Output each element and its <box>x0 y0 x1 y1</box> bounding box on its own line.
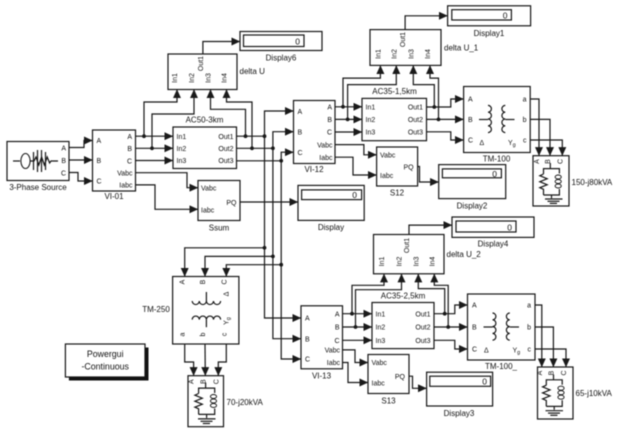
svg-text:Display1: Display1 <box>474 29 505 38</box>
svg-text:Display: Display <box>318 223 344 232</box>
svg-text:In4: In4 <box>425 49 432 59</box>
svg-text:B: B <box>548 370 555 375</box>
svg-text:B: B <box>472 325 477 332</box>
wire VI-12 A to AC35-1,5km In1 <box>335 106 362 108</box>
svg-text:Out2: Out2 <box>408 117 423 124</box>
wire delta U_1 Out1 to Display1 <box>405 16 448 30</box>
svg-text:0: 0 <box>492 169 497 179</box>
wire TM-100 c to load C <box>530 140 562 156</box>
display Display1 <box>448 6 531 38</box>
wire TM-100 b to load B <box>530 119 550 155</box>
svg-text:B: B <box>545 159 552 164</box>
svg-text:Display3: Display3 <box>444 409 475 418</box>
svg-text:A: A <box>127 134 132 141</box>
svg-text:A: A <box>305 316 310 323</box>
svg-text:B: B <box>335 325 340 332</box>
svg-text:A: A <box>61 146 66 153</box>
wire AC35-1,5km Out2 to TM-100 B <box>427 118 464 120</box>
svg-text:Iabc: Iabc <box>380 173 394 180</box>
svg-text:B: B <box>298 129 303 136</box>
transformer TM-100 <box>464 87 531 164</box>
svg-text:C: C <box>557 159 564 164</box>
svg-text:AC35-2,5km: AC35-2,5km <box>381 292 426 301</box>
node feeding delta U_2 In3 <box>443 312 447 316</box>
wire TM-250 b to load B <box>204 344 206 376</box>
transformer TM-250 <box>142 277 239 345</box>
svg-text:A: A <box>335 311 340 318</box>
node TM-250 A tap <box>263 246 267 250</box>
svg-text:B: B <box>200 379 207 384</box>
svg-text:b: b <box>200 332 207 336</box>
svg-text:In2: In2 <box>366 117 376 124</box>
svg-text:TM-100: TM-100 <box>483 155 511 164</box>
svg-text:Vabc: Vabc <box>117 171 133 178</box>
display Display2 <box>439 165 506 211</box>
wire tap to TM-250 C <box>226 265 281 277</box>
display Display3 <box>427 372 493 418</box>
wire TM-100_ c to load C <box>535 349 566 367</box>
svg-text:In1: In1 <box>177 134 187 141</box>
measurement block VI-13 <box>301 306 343 381</box>
svg-text:Display6: Display6 <box>266 54 297 63</box>
svg-text:Iabc: Iabc <box>372 381 386 388</box>
svg-text:Display2: Display2 <box>457 202 488 211</box>
wire tap to TM-250 B <box>205 256 273 276</box>
svg-text:Iabc: Iabc <box>119 183 133 190</box>
wire to delta U_1 In2 <box>348 65 397 119</box>
svg-text:Out1: Out1 <box>404 238 411 253</box>
svg-text:A: A <box>298 109 303 116</box>
svg-text:In2: In2 <box>391 49 398 59</box>
wire to delta U In1 <box>144 90 177 137</box>
svg-text:A: A <box>468 97 473 104</box>
display Display4 <box>452 217 534 249</box>
svg-text:TM-100_: TM-100_ <box>485 362 518 371</box>
svg-text:Out2: Out2 <box>415 325 430 332</box>
svg-text:A: A <box>537 370 544 375</box>
svg-text:VI-01: VI-01 <box>104 192 124 201</box>
3-phase source V1 <box>7 142 69 193</box>
node Out3 corridor junction <box>279 159 283 163</box>
wire source C to VI-01 C <box>69 173 93 182</box>
wire VI-12 Iabc to S12 <box>335 157 377 175</box>
wire to delta U_2 In3 <box>418 274 444 314</box>
svg-text:Out1: Out1 <box>408 105 423 112</box>
svg-text:0: 0 <box>482 377 487 387</box>
svg-text:In1: In1 <box>172 73 179 83</box>
wire to delta U_1 In4 <box>430 65 439 119</box>
svg-text:delta U_2: delta U_2 <box>447 250 482 259</box>
wire VI-13 Iabc to S13 <box>343 363 369 383</box>
svg-text:B: B <box>305 336 310 343</box>
svg-text:Out3: Out3 <box>218 158 233 165</box>
svg-text:AC35-1,5km: AC35-1,5km <box>372 87 417 96</box>
wire VI-01 Iabc to Ssum <box>136 185 199 209</box>
svg-text:Iabc: Iabc <box>201 207 215 214</box>
display Display6 <box>240 32 322 63</box>
wire AC50 Out3 to corridor <box>237 160 282 162</box>
svg-text:Out1: Out1 <box>218 134 233 141</box>
wire to delta U_1 In1 <box>343 65 380 106</box>
powergui block <box>65 344 148 381</box>
svg-text:C: C <box>221 279 228 284</box>
wire VI-12 C to AC35-1,5km In3 <box>335 131 362 133</box>
svg-text:Ssum: Ssum <box>209 224 230 233</box>
node Out2 / delta U In4 <box>250 146 254 150</box>
svg-text:0: 0 <box>507 222 512 232</box>
svg-text:AC50-3km: AC50-3km <box>186 116 224 125</box>
svg-text:A: A <box>472 303 477 310</box>
wire TM-250 c to load C <box>218 344 226 376</box>
svg-text:S12: S12 <box>390 189 405 198</box>
svg-text:S13: S13 <box>381 397 396 406</box>
svg-text:c: c <box>523 138 527 145</box>
svg-text:Out2: Out2 <box>218 146 233 153</box>
wire S12 PQ to Display2 <box>418 167 439 183</box>
wire AC50 Out2 to corridor <box>237 147 273 149</box>
subtractor block delta U <box>168 54 265 90</box>
svg-text:0: 0 <box>295 37 300 47</box>
svg-text:C: C <box>327 130 332 137</box>
svg-text:a: a <box>180 332 187 336</box>
svg-text:Vabc: Vabc <box>201 186 217 193</box>
subtractor block delta U_1 <box>370 30 479 66</box>
wire to delta U_1 In3 <box>413 65 434 107</box>
svg-text:B: B <box>127 146 132 153</box>
svg-text:C: C <box>97 179 102 186</box>
node on phase A feeding delta U In1 <box>142 134 146 138</box>
svg-text:C: C <box>61 171 66 178</box>
wire TM-100_ a to load A <box>535 305 542 367</box>
wire VI-13 C to AC35-2,5km In3 <box>343 339 373 341</box>
svg-text:delta U: delta U <box>240 67 266 76</box>
power measurement S13 <box>368 355 409 406</box>
svg-text:TM-250: TM-250 <box>142 305 170 314</box>
wire TM-100 a to load A <box>530 99 539 156</box>
load 150-j80kVA <box>533 156 613 206</box>
svg-text:C: C <box>334 338 339 345</box>
svg-text:c: c <box>528 347 532 354</box>
load 65-j10kVA <box>537 367 613 419</box>
svg-text:In2: In2 <box>376 325 386 332</box>
svg-text:b: b <box>523 117 527 124</box>
wire source B to VI-01 B <box>69 159 93 161</box>
svg-text:Vabc: Vabc <box>325 347 341 354</box>
svg-text:B: B <box>200 279 207 284</box>
svg-text:B: B <box>97 158 102 165</box>
svg-text:Iabc: Iabc <box>327 360 341 367</box>
wire VI-12 B to AC35-1,5km In2 <box>335 118 362 120</box>
wire S13 PQ to Display3 <box>409 376 427 388</box>
wire AC35-1,5km Out1 to TM-100 A <box>427 99 464 107</box>
svg-text:PQ: PQ <box>395 374 406 381</box>
svg-text:C: C <box>468 138 473 145</box>
wire delta U Out1 to Display6 <box>203 42 240 55</box>
svg-text:Δ: Δ <box>480 140 485 147</box>
svg-text:In1: In1 <box>375 49 382 59</box>
svg-text:C: C <box>472 347 477 354</box>
wire corridor C up to VI-12 C <box>281 152 293 161</box>
svg-text:0: 0 <box>352 190 357 200</box>
svg-text:VI-12: VI-12 <box>304 165 324 174</box>
svg-text:In3: In3 <box>177 158 187 165</box>
svg-text:Δ: Δ <box>484 347 489 354</box>
svg-text:In3: In3 <box>366 130 376 137</box>
node feeding delta U_1 In4 <box>437 118 441 122</box>
svg-text:A: A <box>97 138 102 145</box>
svg-text:In1: In1 <box>376 311 386 318</box>
wire delta U_2 Out1 to Display4 <box>409 225 452 234</box>
wire corridor A down to VI-13 A <box>265 136 302 318</box>
svg-text:In3: In3 <box>206 73 213 83</box>
node feeding delta U_1 In3 <box>432 105 436 109</box>
wire VI-13 B to AC35-2,5km In2 <box>343 326 373 328</box>
wire Ssum PQ to Display <box>240 201 298 203</box>
svg-text:3-Phase Source: 3-Phase Source <box>9 183 67 192</box>
svg-text:In4: In4 <box>429 257 436 267</box>
wire VI-01 C to AC50 In3 <box>136 160 174 162</box>
wire to delta U_2 In4 <box>434 274 448 327</box>
svg-text:70-j20kVA: 70-j20kVA <box>227 398 264 407</box>
power measurement S12 <box>377 147 418 198</box>
svg-text:Out3: Out3 <box>415 338 430 345</box>
svg-text:In3: In3 <box>376 338 386 345</box>
display Display <box>298 185 364 232</box>
svg-text:C: C <box>298 150 303 157</box>
wire tap to TM-250 A <box>185 248 265 277</box>
svg-text:B: B <box>468 117 473 124</box>
wire AC35-2,5km Out3 to TM-100_ C <box>434 340 468 349</box>
svg-text:A: A <box>327 105 332 112</box>
svg-text:a: a <box>527 303 531 310</box>
wire VI-01 Vabc to Ssum <box>136 173 199 188</box>
wire corridor C down to VI-13 C <box>281 161 301 359</box>
wire VI-13 A to AC35-2,5km In1 <box>343 313 373 315</box>
svg-text:A: A <box>189 379 196 384</box>
svg-text:C: C <box>561 370 568 375</box>
svg-text:A: A <box>180 279 187 284</box>
measurement block VI-01 <box>93 130 136 201</box>
transformer TM-100_ <box>468 294 536 371</box>
wire AC35-2,5km Out1 to TM-100_ A <box>434 305 468 314</box>
svg-text:c: c <box>221 332 228 336</box>
wire to delta U In3 <box>211 90 246 137</box>
svg-text:A: A <box>534 159 541 164</box>
wire AC35-2,5km Out2 to TM-100_ B <box>434 326 468 328</box>
svg-text:-Continuous: -Continuous <box>81 362 129 372</box>
wire AC50 Out1 to corridor <box>237 135 265 137</box>
subtractor block delta U_2 <box>374 235 482 274</box>
wire VI-01 B to AC50 In2 <box>136 147 174 149</box>
svg-text:0: 0 <box>503 11 508 21</box>
node feeding delta U_1 In2 <box>346 118 350 122</box>
svg-text:C: C <box>213 379 220 384</box>
svg-text:Out3: Out3 <box>408 130 423 137</box>
transmission line AC35-1,5km <box>362 87 427 141</box>
wire corridor B down to VI-13 B <box>273 148 301 338</box>
wire source A to VI-01 A <box>69 141 93 148</box>
wire AC35-1,5km Out3 to TM-100 C <box>427 132 464 140</box>
svg-text:Out1: Out1 <box>415 311 430 318</box>
load 70-j20kVA <box>188 376 263 427</box>
wire TM-100_ b to load B <box>535 327 553 367</box>
wire VI-01 A to AC50 In1 <box>136 135 174 137</box>
svg-text:In2: In2 <box>189 73 196 83</box>
svg-text:In3: In3 <box>408 49 415 59</box>
wire corridor A up to VI-12 A <box>265 111 294 136</box>
wire corridor B up to VI-12 B <box>273 132 294 149</box>
svg-text:PQ: PQ <box>226 200 237 207</box>
svg-text:B: B <box>61 158 66 165</box>
node on phase B feeding delta U In2 <box>150 146 154 150</box>
node Out1 corridor junction <box>263 134 267 138</box>
svg-text:In1: In1 <box>366 105 376 112</box>
svg-text:Vabc: Vabc <box>317 142 333 149</box>
node feeding delta U_2 In2 <box>354 325 358 329</box>
svg-text:VI-13: VI-13 <box>312 372 332 381</box>
transmission line AC50-3km <box>173 116 237 169</box>
wire to delta U In2 <box>152 90 194 149</box>
svg-text:65-j10kVA: 65-j10kVA <box>576 389 613 398</box>
svg-text:delta U_1: delta U_1 <box>444 44 479 53</box>
node feeding delta U_2 In1 <box>350 312 354 316</box>
wire TM-250 a to load A <box>185 344 194 376</box>
measurement block VI-12 <box>294 101 336 175</box>
svg-text:B: B <box>327 117 332 124</box>
power measurement Ssum <box>198 181 240 233</box>
node Out1 / delta U In3 <box>244 134 248 138</box>
node TM-250 B tap <box>271 255 275 259</box>
svg-text:b: b <box>527 325 531 332</box>
svg-text:C: C <box>127 158 132 165</box>
svg-text:PQ: PQ <box>403 164 414 171</box>
svg-text:Display4: Display4 <box>478 240 509 249</box>
wire to delta U_2 In2 <box>356 274 402 327</box>
wire to delta U In4 <box>227 90 253 149</box>
svg-text:C: C <box>305 357 310 364</box>
wire to delta U_2 In1 <box>352 274 384 314</box>
svg-text:Vabc: Vabc <box>372 360 388 367</box>
svg-text:In2: In2 <box>177 146 187 153</box>
node feeding delta U_2 In4 <box>446 325 450 329</box>
svg-text:In3: In3 <box>413 257 420 267</box>
svg-text:Iabc: Iabc <box>319 155 333 162</box>
svg-text:Δ: Δ <box>224 291 231 296</box>
node Out2 corridor junction <box>271 146 275 150</box>
svg-text:In2: In2 <box>397 257 404 267</box>
svg-text:150-j80kVA: 150-j80kVA <box>572 178 613 187</box>
svg-text:Out1: Out1 <box>198 56 205 71</box>
wire VI-12 Vabc to S12 <box>335 145 377 155</box>
svg-text:a: a <box>523 97 527 104</box>
svg-text:In1: In1 <box>379 257 386 267</box>
node feeding delta U_1 In1 <box>341 105 345 109</box>
node TM-250 C tap <box>279 263 283 267</box>
svg-text:Vabc: Vabc <box>380 153 396 160</box>
svg-text:Powergui: Powergui <box>87 349 124 359</box>
svg-text:In4: In4 <box>222 73 229 83</box>
transmission line AC35-2,5km <box>372 292 434 349</box>
wire VI-13 Vabc to S13 <box>343 350 369 363</box>
svg-text:Out1: Out1 <box>400 32 407 47</box>
